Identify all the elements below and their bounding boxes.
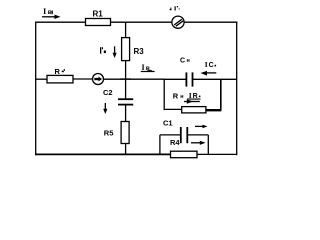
label IR underlined xyxy=(187,91,201,100)
wire Rn to right vertical thick xyxy=(206,109,221,111)
wire source to Cn branch xyxy=(104,78,165,80)
wire Cn branch to cap xyxy=(164,78,187,80)
wire C1 branch right vertical xyxy=(207,135,209,155)
wire middle segment left rail to Rr xyxy=(35,78,47,80)
resistor R4 xyxy=(171,151,198,158)
wire R5 bottom stub xyxy=(125,144,127,155)
wire top segment lamp to corner xyxy=(184,21,237,23)
svg-text:C: C xyxy=(180,57,185,64)
label IB1 xyxy=(43,6,53,16)
current arrow down at C2 xyxy=(103,103,107,114)
resistor R1 xyxy=(86,19,111,26)
svg-text:I: I xyxy=(142,63,145,72)
label IB xyxy=(141,63,155,72)
resistor Rr xyxy=(47,75,73,83)
current arrow above C1 xyxy=(195,125,208,129)
wire C2 to R5 xyxy=(125,105,127,122)
svg-text:C2: C2 xyxy=(103,88,113,97)
svg-text:I: I xyxy=(43,6,47,16)
label Ia marks xyxy=(100,47,106,54)
svg-text:R5: R5 xyxy=(104,128,114,137)
wire top segment R1 to lamp xyxy=(111,21,173,23)
wire C2 top stub xyxy=(125,79,127,99)
capacitor C2 xyxy=(118,99,133,104)
resistor R5 xyxy=(121,122,129,144)
resistor Rn xyxy=(182,107,206,113)
label Cn xyxy=(180,57,190,64)
capacitor C1 xyxy=(181,127,188,143)
svg-text:н: н xyxy=(180,94,183,100)
svg-text:R4: R4 xyxy=(170,138,180,147)
svg-text:I: I xyxy=(205,60,208,69)
svg-text:н: н xyxy=(187,58,190,64)
label Rn xyxy=(173,92,184,101)
wire cap Cn to right rail xyxy=(193,78,238,80)
node junction R3/C2 xyxy=(120,78,131,80)
capacitor Cn xyxy=(186,72,192,86)
svg-text:в: в xyxy=(48,9,52,16)
lamp G1 xyxy=(172,16,184,28)
wire R3 bottom stub xyxy=(125,61,127,79)
svg-text:C1: C1 xyxy=(163,119,173,128)
wire C1 branch right horizontal xyxy=(187,134,208,136)
current source B1 xyxy=(93,74,104,85)
wire Rn branch right vertical xyxy=(220,79,222,110)
current arrow right of R4 xyxy=(191,141,206,145)
resistor R3 xyxy=(122,38,130,61)
wire Rn branch left vertical xyxy=(163,79,165,110)
wire top segment left of R1 xyxy=(35,21,85,23)
wire Rr to source xyxy=(73,78,93,80)
wire C1 branch left vertical xyxy=(159,135,161,155)
svg-text:C: C xyxy=(209,62,214,69)
wire right rail xyxy=(236,22,238,156)
svg-text:R: R xyxy=(173,92,179,101)
wire R3 top stub xyxy=(125,22,127,37)
svg-text:R1: R1 xyxy=(93,10,104,19)
current arrow IC pointing left xyxy=(201,71,217,76)
svg-text:R: R xyxy=(55,67,61,76)
label Rr xyxy=(55,67,66,76)
wire left rail xyxy=(35,22,37,156)
current arrow down at R3 xyxy=(113,46,117,58)
current arrow IB1 xyxy=(42,15,61,19)
current arrow IR pointing right xyxy=(184,99,200,103)
wire Rn branch left horizontal xyxy=(164,108,182,110)
label IC xyxy=(205,60,216,69)
label above lamp xyxy=(170,6,180,10)
wire C1 branch left horizontal xyxy=(160,134,181,136)
svg-text:R3: R3 xyxy=(134,47,145,56)
wire bottom segment right of R4 xyxy=(197,153,237,155)
wire bottom segment left of R4 xyxy=(35,153,170,155)
